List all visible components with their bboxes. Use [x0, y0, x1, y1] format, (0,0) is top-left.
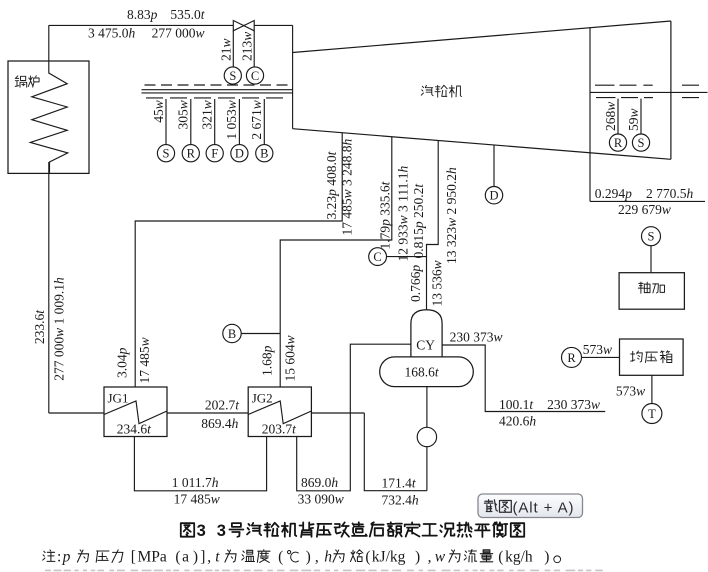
seal leakoff collector B [256, 145, 273, 162]
svg-text:420.6h: 420.6h [499, 413, 536, 428]
svg-text:21w: 21w [218, 38, 233, 61]
svg-text:,: , [315, 548, 319, 565]
svg-text:JG2: JG2 [252, 391, 273, 406]
svg-text:100.1t: 100.1t [499, 397, 534, 412]
svg-text:CY: CY [416, 337, 435, 352]
svg-text:3 475.0h: 3 475.0h [88, 26, 136, 41]
svg-text:S: S [638, 136, 645, 150]
heater JG1 box [104, 387, 167, 437]
svg-text:869.0h: 869.0h [301, 475, 338, 490]
svg-text:13 536w: 13 536w [430, 260, 445, 306]
svg-text:D: D [489, 189, 498, 203]
collector C [369, 248, 387, 266]
svg-text:C: C [251, 69, 259, 83]
svg-text:8.83p: 8.83p [127, 7, 158, 22]
svg-text:732.4h: 732.4h [382, 493, 419, 508]
svg-text:17 485w: 17 485w [174, 492, 220, 507]
seal header solid line 2 [142, 92, 293, 94]
seal leakoff wire S [165, 99, 167, 145]
right seal header lower dash [596, 97, 616, 99]
svg-text:R: R [614, 136, 623, 150]
svg-text:(: ( [365, 548, 370, 565]
svg-text:w: w [435, 548, 446, 565]
CY body [380, 357, 474, 387]
svg-text:59w: 59w [626, 108, 641, 131]
svg-text:R: R [187, 147, 196, 161]
svg-text:2 770.5h: 2 770.5h [646, 186, 694, 201]
svg-text:1 011.7h: 1 011.7h [172, 475, 219, 490]
right seal header lower dash [621, 97, 638, 99]
svg-text:0.766p: 0.766p [408, 265, 423, 302]
seal leakoff wire D [238, 99, 240, 145]
collector T [642, 404, 662, 424]
svg-text:202.7t: 202.7t [205, 398, 240, 413]
svg-text:15 604w: 15 604w [282, 335, 297, 381]
svg-text:F: F [211, 147, 218, 161]
valve stem leakoff wire S [232, 31, 234, 67]
right seal leakoff collector S [632, 134, 649, 151]
svg-text:12 933w 3 111.1h: 12 933w 3 111.1h [396, 165, 411, 261]
wire C to CY inlet [387, 256, 427, 258]
JG2 heat exchange symbol [248, 401, 311, 424]
svg-text:17 485w: 17 485w [137, 337, 152, 383]
wire B to extraction 2 [241, 333, 280, 335]
valve stem leakoff wire C [253, 31, 255, 67]
svg-text:171.4t: 171.4t [382, 476, 417, 491]
svg-text:): ) [306, 548, 311, 565]
JG1 drain to JG2 [134, 437, 266, 491]
note line [43, 550, 55, 562]
svg-text:230 373w: 230 373w [450, 329, 503, 344]
svg-text:33 090w: 33 090w [298, 492, 344, 507]
turbine inlet drop / left edge [292, 25, 294, 128]
svg-text:1 053w: 1 053w [224, 100, 239, 139]
figure caption [181, 523, 194, 537]
wire R to equalizing box [582, 356, 620, 358]
svg-text:203.7t: 203.7t [262, 422, 297, 437]
seal leakoff collector F [206, 145, 223, 162]
right shaft line [590, 91, 708, 93]
svg-text:]: ] [200, 548, 205, 565]
CY dome [411, 310, 442, 357]
exhaust line [590, 200, 705, 202]
boiler box [8, 61, 89, 173]
seal header solid line 1 [142, 89, 293, 91]
faint cut-off text row [45, 570, 51, 572]
svg-text:1.68p: 1.68p [260, 345, 275, 376]
svg-text:869.4h: 869.4h [201, 416, 238, 431]
svg-text:321w: 321w [200, 100, 215, 129]
svg-text:[: [ [131, 548, 136, 565]
seal header upper dashed line [145, 84, 293, 86]
seal header lower dashed line [146, 97, 288, 99]
heating water outlet [442, 345, 605, 412]
water wire JG2 right [311, 412, 364, 414]
turbine top edge [293, 21, 671, 53]
svg-text:kg/h: kg/h [505, 548, 533, 565]
svg-text:1.79p 335.6t: 1.79p 335.6t [378, 180, 393, 249]
svg-text:JG1: JG1 [108, 391, 129, 406]
svg-text:C: C [373, 250, 381, 264]
collector D [485, 187, 502, 204]
seal leakoff wire R [190, 99, 192, 145]
svg-text:213w: 213w [240, 32, 255, 61]
svg-text:(: ( [278, 548, 283, 565]
svg-text:t: t [215, 548, 220, 565]
svg-text:277 000w 1 009.1h: 277 000w 1 009.1h [52, 277, 67, 381]
svg-text:(Alt + A): (Alt + A) [513, 499, 575, 516]
svg-text:573w: 573w [616, 383, 645, 398]
svg-text:kJ/kg: kJ/kg [372, 548, 406, 565]
turbine right edge [670, 21, 672, 159]
feedwater wire into JG1 [49, 412, 104, 414]
svg-text:230 373w: 230 373w [547, 397, 600, 412]
boiler outlet riser [48, 25, 50, 61]
svg-text:3: 3 [197, 522, 206, 540]
right seal header upper dash [682, 84, 699, 86]
svg-text:168.6t: 168.6t [405, 365, 440, 380]
svg-text:3.04p: 3.04p [115, 347, 130, 378]
svg-text:S: S [229, 69, 236, 83]
svg-text:T: T [648, 407, 656, 421]
seal leakoff collector R [182, 145, 199, 162]
main steam pipe [49, 24, 293, 26]
right seal header upper dash [643, 84, 652, 86]
seal leakoff collector D [231, 145, 248, 162]
right seal header lower dash [644, 97, 653, 99]
extraction 2 pipe to JG2 [280, 137, 392, 387]
right seal header upper dash [595, 84, 615, 86]
svg-text:,: , [207, 548, 211, 565]
svg-text:R: R [567, 351, 576, 365]
svg-text:0.815p 250.2t: 0.815p 250.2t [411, 183, 426, 259]
right seal leakoff collector R [609, 134, 626, 151]
svg-text:MPa: MPa [138, 548, 167, 565]
CY drain wire [426, 387, 428, 491]
svg-text:(: ( [498, 548, 503, 565]
svg-text:268w: 268w [603, 102, 618, 131]
gland steam collector S [642, 227, 661, 246]
boiler heating zigzag [30, 61, 68, 173]
svg-text:13 323w 2 950.2h: 13 323w 2 950.2h [444, 167, 459, 264]
svg-text:,: , [428, 548, 432, 565]
svg-text:277 000w: 277 000w [152, 26, 205, 41]
svg-text:p: p [62, 548, 71, 565]
svg-text:305w: 305w [176, 100, 191, 129]
svg-text:D: D [235, 147, 244, 161]
right seal leakoff wire S [640, 99, 642, 134]
svg-text:(: ( [175, 548, 180, 565]
svg-text:234.6t: 234.6t [117, 422, 152, 437]
svg-text:): ) [415, 548, 420, 565]
right seal header upper dash [620, 84, 637, 86]
svg-text:): ) [544, 548, 549, 565]
equalizing box 均压箱 [620, 339, 684, 375]
svg-text:): ) [193, 548, 198, 565]
svg-text:535.0t: 535.0t [170, 7, 205, 22]
right seal header lower dash [682, 97, 699, 99]
leakoff collector S [224, 67, 241, 84]
svg-text:S: S [163, 147, 170, 161]
collector B [223, 324, 241, 342]
svg-text:45w: 45w [151, 100, 166, 123]
extraction 1 pipe to JG1 [135, 133, 342, 387]
seal leakoff wire B [263, 99, 265, 145]
wire S to gland heater [650, 246, 652, 273]
condensate pump circle [417, 427, 436, 446]
svg-text:0.294p: 0.294p [595, 186, 632, 201]
feedwater riser to boiler [48, 162, 50, 413]
JG2 drain to CY [297, 344, 411, 491]
leakoff collector C [246, 67, 263, 84]
svg-text::: : [57, 548, 61, 565]
svg-text:S: S [648, 230, 655, 244]
extraction 3 pipe to CY [427, 141, 439, 310]
heater JG2 box [248, 387, 311, 437]
svg-text:573w: 573w [583, 342, 612, 357]
svg-text:B: B [260, 147, 268, 161]
turbine LP section divider / exhaust drop [589, 28, 591, 202]
svg-text:233.6t: 233.6t [32, 309, 47, 344]
JG1 heat exchange symbol [104, 401, 167, 424]
condensate wire to CY drain [364, 413, 427, 491]
svg-text:3.23p 408.0t: 3.23p 408.0t [324, 150, 339, 219]
turbine drain wire D [493, 145, 495, 186]
water wire JG1 to JG2 [167, 412, 248, 414]
svg-text:B: B [228, 327, 236, 341]
turbine bottom edge [293, 129, 671, 160]
gland heater box 轴加 [619, 273, 684, 310]
seal leakoff wire F [214, 99, 216, 145]
svg-text:229 679w: 229 679w [618, 202, 671, 217]
svg-text:3: 3 [217, 522, 226, 540]
right seal leakoff wire R [617, 99, 619, 134]
svg-text:a: a [182, 548, 189, 565]
svg-text:h: h [324, 548, 332, 565]
main steam stop valve [233, 21, 254, 31]
wire equalizing box to T [651, 375, 653, 403]
seal leakoff collector S [157, 145, 174, 162]
svg-text:2 671w: 2 671w [249, 100, 264, 139]
svg-text:17 485w 3 248.8h: 17 485w 3 248.8h [339, 138, 354, 235]
collector R [562, 347, 582, 367]
